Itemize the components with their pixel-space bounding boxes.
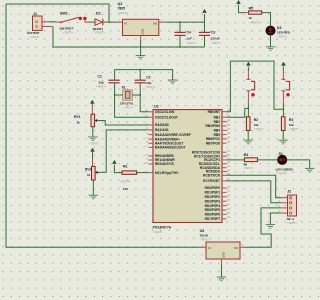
svg-text:<TEXT>: <TEXT> — [289, 127, 299, 131]
svg-text:<TEXT>: <TEXT> — [30, 35, 41, 39]
pin RB6/PGC — [222, 138, 227, 140]
svg-text:J1: J1 — [33, 12, 37, 16]
power VCC arrow above C3 — [203, 9, 207, 13]
svg-text:RA2/AN2/VREF-/CVREF: RA2/AN2/VREF-/CVREF — [155, 133, 191, 137]
wire RC2 to R4 — [227, 159, 245, 161]
pin RC0/T1OSO/T1CKI — [222, 151, 227, 153]
pin J1.1 — [42, 21, 47, 23]
svg-text:R5: R5 — [249, 6, 254, 10]
pin RA5/AN4/SS/C2OUT — [148, 146, 153, 148]
pin RD4/PSP4 — [222, 205, 227, 207]
svg-text:C4: C4 — [187, 30, 191, 34]
svg-text:C2: C2 — [146, 75, 150, 79]
svg-text:<TEXT>: <TEXT> — [63, 31, 74, 35]
pin RE1/AN6/WR — [148, 159, 153, 161]
ground under J2 — [266, 225, 275, 229]
wire VCC to R5 — [239, 5, 245, 13]
pin RB5 — [222, 134, 227, 136]
wire VIN top rail from J1 area to U2.VI — [6, 4, 109, 22]
svg-text:<TEXT>: <TEXT> — [200, 238, 211, 242]
resistor R1 — [122, 171, 137, 174]
svg-text:RB2: RB2 — [214, 120, 221, 124]
wire J2 pin4 to ground — [270, 213, 281, 225]
ground of crystal caps — [168, 80, 177, 84]
svg-text:<TEXT>: <TEXT> — [89, 141, 99, 145]
pin RC6/TX/CK — [222, 174, 227, 176]
wire RV1 to ground — [92, 127, 94, 137]
wire U2.VO to C4 C3 VCC — [164, 14, 205, 22]
resistor R3 — [281, 117, 285, 131]
svg-text:<TEXT>: <TEXT> — [145, 85, 156, 89]
pin RB0/INT — [222, 111, 227, 113]
svg-text:RD1/PSP1: RD1/PSP1 — [205, 191, 221, 195]
svg-text:D2: D2 — [96, 11, 101, 15]
svg-text:RB7/PGD: RB7/PGD — [206, 141, 221, 145]
svg-text:PIC16F877A: PIC16F877A — [153, 225, 172, 229]
svg-text:RD6/PSP6: RD6/PSP6 — [205, 213, 221, 217]
power VCC arrow above R1 — [112, 160, 116, 164]
pin RE0/AN5/RD — [148, 155, 153, 157]
capacitor C2 — [139, 69, 141, 71]
pin RD2/PSP2 — [222, 196, 227, 198]
wire RC7 to J2 pin2 — [227, 181, 281, 203]
pin RD1/PSP1 — [222, 191, 227, 193]
resistor R2 — [246, 117, 250, 131]
pin RA0/AN0 — [148, 124, 153, 126]
svg-text:C1: C1 — [98, 75, 102, 79]
svg-text:VO: VO — [153, 22, 158, 26]
push button above R3 — [282, 67, 284, 71]
svg-text:RD3/PSP3: RD3/PSP3 — [205, 199, 221, 203]
pin RD5/PSP5 — [222, 209, 227, 211]
pin RC1/T1OSI/CCP2 — [222, 155, 227, 157]
wire D3 to ground — [270, 35, 272, 47]
svg-text:R4: R4 — [244, 153, 249, 157]
wire GND rail from J1.2 under U2/C4/C3 — [53, 27, 205, 48]
svg-text:R1: R1 — [123, 164, 128, 168]
svg-text:<TEXT>: <TEXT> — [243, 166, 254, 170]
wire VIN left rail down to U3.VI — [6, 4, 201, 247]
svg-text:MCLR/Vpp/THV: MCLR/Vpp/THV — [155, 171, 179, 175]
wire U2.GND to rail — [140, 40, 142, 47]
pin RD0/PSP0 — [222, 187, 227, 189]
svg-text:GND: GND — [222, 252, 226, 258]
pin RC2/CCP1 — [222, 159, 227, 161]
pin RC7/RX/DT — [222, 180, 227, 182]
pin U2.VO — [159, 21, 164, 23]
pin RB2 — [222, 121, 227, 123]
wire R1 to MCLR — [137, 172, 149, 174]
LED D3 — [266, 26, 275, 35]
ground under R3 — [279, 140, 288, 144]
svg-text:RD7/PSP7: RD7/PSP7 — [205, 217, 221, 221]
svg-text:<TEXT>: <TEXT> — [120, 180, 131, 184]
svg-text:1k: 1k — [77, 120, 81, 124]
svg-text:10k: 10k — [289, 123, 294, 127]
pin RC5/SDO — [222, 171, 227, 173]
svg-text:GND: GND — [141, 29, 145, 35]
svg-text:<TEXT>: <TEXT> — [277, 35, 288, 39]
wire C1/X1 node to OSC2 — [115, 83, 149, 117]
svg-text:VO: VO — [234, 246, 239, 250]
svg-text:RE2/AN7/CS: RE2/AN7/CS — [155, 162, 174, 166]
pin RC4/SDI/SDA — [222, 167, 227, 169]
resistor R4 — [244, 158, 257, 162]
svg-text:<TEXT>: <TEXT> — [96, 85, 107, 89]
svg-text:RA0/AN0: RA0/AN0 — [155, 123, 169, 127]
pin OSC1/CLKIN — [148, 111, 153, 113]
svg-text:<TEXT>: <TEXT> — [211, 41, 222, 45]
ground under R2 — [244, 140, 253, 144]
pin RB1 — [222, 116, 227, 118]
svg-text:C3: C3 — [211, 30, 215, 34]
pin RB7/PGD — [222, 142, 227, 144]
pin RE2/AN7/CS — [148, 163, 153, 165]
power VCC arrow above RV2 — [91, 148, 95, 152]
regulator U2 7805 — [117, 21, 123, 23]
wire C2/X1 node to OSC1 — [140, 83, 148, 112]
wire D2 to U2.VI — [103, 21, 117, 23]
svg-text:VI: VI — [208, 246, 211, 250]
wire RB1 to button1 — [227, 108, 249, 117]
regulator U3 — [201, 246, 207, 248]
svg-text:<TEXT>: <TEXT> — [186, 41, 197, 45]
pin MCLR/Vpp/THV — [148, 172, 153, 174]
svg-text:<TEXT>: <TEXT> — [287, 221, 298, 225]
svg-text:RV2: RV2 — [85, 167, 92, 171]
svg-text:<TEXT>: <TEXT> — [250, 20, 261, 24]
svg-text:VI: VI — [124, 22, 127, 26]
power VCC arrow above RV1 — [90, 100, 94, 104]
power VCC arrow above button R3 — [281, 62, 285, 66]
svg-text:OSC1/CLKIN: OSC1/CLKIN — [155, 110, 175, 114]
svg-text:10k: 10k — [123, 187, 128, 191]
svg-text:RD5/PSP5: RD5/PSP5 — [205, 208, 221, 212]
ground under RV2 — [89, 195, 98, 199]
pin U2.GND — [140, 36, 142, 41]
svg-text:OSC2/CLKOUT: OSC2/CLKOUT — [155, 115, 178, 119]
connector J1 — [33, 16, 43, 30]
wire OSC top rail to ground — [115, 70, 173, 80]
switch SW1 — [56, 21, 62, 23]
svg-text:RC7/RX/DT: RC7/RX/DT — [203, 179, 220, 183]
svg-text:<TEXT>: <TEXT> — [118, 11, 129, 15]
svg-text:<TEXT>: <TEXT> — [123, 105, 134, 109]
pin RA1/AN1 — [148, 129, 153, 131]
wire RB0 via arch to button2 — [227, 61, 284, 112]
ground under D3 — [266, 47, 275, 51]
potentiometer RV2 — [92, 166, 96, 180]
svg-text:RD0/PSP0: RD0/PSP0 — [205, 186, 221, 190]
svg-text:<TEXT>: <TEXT> — [95, 31, 106, 35]
pin RB3/PGM — [222, 125, 227, 127]
capacitor C1 — [114, 70, 116, 80]
svg-text:RV1: RV1 — [74, 115, 81, 119]
svg-text:100nF: 100nF — [211, 36, 220, 40]
resistor R5 — [249, 11, 262, 14]
wire J1.1 to SW1 — [47, 21, 56, 23]
pin RD7/PSP7 — [222, 218, 227, 220]
pin RA2/AN2/VREF-/CVREF — [148, 134, 153, 136]
svg-text:<TEXT>: <TEXT> — [277, 172, 288, 176]
svg-text:D1: D1 — [279, 152, 283, 156]
svg-text:SW1: SW1 — [60, 11, 68, 15]
pin RC3/SCK/SCL — [222, 163, 227, 165]
pin U3.GND — [221, 259, 223, 264]
svg-text:RB0/INT: RB0/INT — [208, 110, 220, 114]
svg-text:1k: 1k — [249, 16, 253, 20]
svg-text:R2: R2 — [254, 118, 258, 122]
ground under RV1 — [88, 137, 97, 141]
pin RB4 — [222, 129, 227, 131]
capacitor C3 — [204, 22, 206, 32]
diode D2 1N4007 — [95, 19, 102, 26]
pin OSC2/CLKOUT — [148, 116, 153, 118]
microcontroller U1 PIC16F877A — [153, 110, 222, 223]
svg-text:RD4/PSP4: RD4/PSP4 — [205, 204, 221, 208]
svg-text:RA1/AN1: RA1/AN1 — [155, 128, 169, 132]
potentiometer RV1 — [91, 114, 95, 127]
wire RV1 wiper to RA0 — [98, 121, 149, 126]
svg-text:U1: U1 — [154, 105, 159, 109]
svg-text:X1: X1 — [122, 85, 126, 89]
svg-text:<TEXT>: <TEXT> — [254, 127, 264, 131]
svg-text:1k: 1k — [87, 173, 91, 177]
pin U3.VO — [240, 246, 246, 248]
svg-text:RB1: RB1 — [214, 115, 221, 119]
svg-text:<TEXT>: <TEXT> — [153, 230, 164, 234]
pin RD3/PSP3 — [222, 200, 227, 202]
svg-text:10k: 10k — [254, 123, 259, 127]
svg-text:RD2/PSP2: RD2/PSP2 — [205, 195, 221, 199]
svg-text:1uF: 1uF — [187, 36, 193, 40]
wire R4 to D1 — [258, 159, 278, 161]
ground under U3 — [217, 277, 226, 281]
pin J1.2 — [42, 26, 53, 28]
wire RC6 to J2 pin1 — [227, 175, 281, 197]
svg-text:R3: R3 — [289, 118, 293, 122]
power VCC arrow above R5 — [237, 0, 241, 4]
capacitor C4 — [179, 22, 181, 32]
pin RD6/PSP6 — [222, 213, 227, 215]
wire R5 to D3 — [262, 13, 271, 27]
crystal X1 — [115, 94, 123, 96]
svg-text:RC6/TX/CK: RC6/TX/CK — [203, 174, 221, 178]
wire D1 to ground — [287, 160, 310, 169]
svg-text:RA5/AN4/SS/C2OUT: RA5/AN4/SS/C2OUT — [155, 146, 186, 150]
wire SW1 to D2 — [88, 21, 95, 23]
wire RV2 wiper to RA1 — [98, 130, 148, 173]
connector J2 — [288, 195, 297, 216]
svg-text:U2: U2 — [118, 2, 123, 6]
LED D1 — [278, 155, 287, 164]
power VCC arrow above button R2 — [246, 62, 250, 66]
svg-text:J2: J2 — [287, 189, 291, 193]
pin RA4/T0CKI/C1OUT — [148, 142, 153, 144]
ground under U2 — [136, 56, 145, 60]
push button above R2 — [247, 67, 249, 71]
wire U3.VO to J2 pin3 — [246, 208, 282, 247]
ground right of D1 — [305, 168, 314, 172]
wire RV2 to ground — [92, 180, 94, 195]
wire U3.GND to ground — [221, 264, 223, 277]
pin RA3/AN3/VREF+ — [148, 138, 153, 140]
svg-text:U3: U3 — [200, 229, 205, 233]
